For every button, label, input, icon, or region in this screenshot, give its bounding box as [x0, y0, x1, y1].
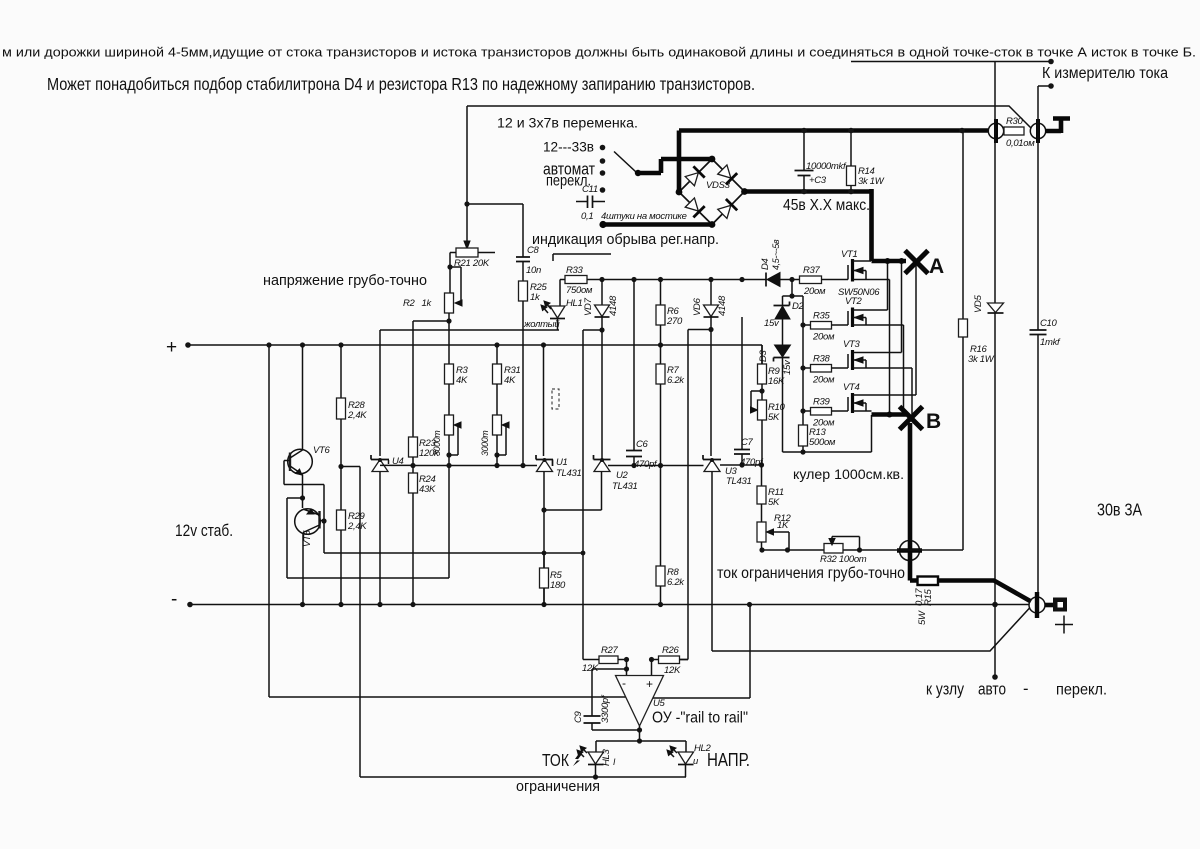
capacitor C9: [573, 669, 640, 730]
svg-text:VT4: VT4: [843, 382, 860, 393]
resistor R38: [803, 354, 848, 386]
svg-text:4148: 4148: [608, 295, 619, 316]
svg-text:180: 180: [550, 580, 566, 591]
svg-text:43K: 43K: [419, 484, 436, 495]
switch arm: [614, 152, 636, 173]
svg-text:U2: U2: [616, 470, 629, 481]
current set wire y551: [762, 549, 963, 551]
regulator U2 TL431: [544, 330, 637, 510]
svg-text:авто: авто: [978, 681, 1006, 699]
resistor R24: [409, 473, 436, 605]
svg-text:ТОК: ТОК: [542, 751, 569, 770]
node A bus: [872, 259, 907, 264]
resistor R5: [540, 551, 566, 591]
svg-text:R27: R27: [601, 645, 619, 656]
R5 bottom wire: [543, 553, 545, 605]
svg-text:C11: C11: [582, 184, 598, 195]
resistor R3: [445, 364, 469, 415]
thick bridge right output to A: [745, 189, 872, 261]
bridge diode bottom-right: [717, 199, 738, 220]
svg-text:TL431: TL431: [612, 481, 637, 492]
LED bottom bus: [360, 776, 686, 778]
indication bracket: [553, 254, 611, 261]
svg-text:R33: R33: [566, 265, 584, 276]
bridge rectifier VDS3 diamond: [679, 159, 745, 225]
svg-text:500ом: 500ом: [809, 437, 836, 448]
drain riser VT2: [887, 261, 889, 310]
svg-text:жолтый: жолтый: [523, 319, 560, 330]
diode VD5: [973, 294, 1004, 313]
svg-text:VT3: VT3: [843, 339, 861, 350]
resistor R16 line: [962, 131, 964, 550]
svg-text:напряжение грубо-точно: напряжение грубо-точно: [263, 273, 427, 289]
leader wire to ammeter label: [1038, 85, 1051, 87]
svg-text:D4: D4: [760, 258, 771, 270]
bridge diode top-right: [717, 164, 738, 185]
regulator U1 TL431: [536, 345, 581, 605]
svg-text:2,4K: 2,4K: [347, 410, 367, 421]
svg-text:VD7: VD7: [583, 297, 594, 316]
resistor R13: [799, 425, 836, 448]
resistor R28: [337, 345, 368, 467]
source drop VT2: [903, 325, 905, 415]
resistor R31: [493, 345, 521, 415]
bridge diode bottom-left: [684, 197, 705, 218]
gate node jog: [783, 280, 804, 297]
svg-text:C8: C8: [527, 245, 540, 256]
resistor chain R9: [758, 345, 785, 387]
drain riser VT3: [901, 261, 903, 353]
potentiometer R12: [757, 504, 792, 550]
potentiometer R32: [820, 537, 867, 566]
resistor R8: [656, 466, 685, 605]
svg-text:ограничения: ограничения: [516, 778, 600, 795]
base link wire y553: [324, 552, 583, 554]
svg-text:1K: 1K: [777, 520, 789, 531]
svg-text:-: -: [622, 676, 626, 690]
inverting input node: [624, 657, 629, 662]
svg-text:U4: U4: [392, 456, 404, 467]
LED branch top bus: [596, 741, 686, 752]
resistor R29: [337, 467, 368, 605]
svg-text:U1: U1: [556, 457, 568, 468]
svg-text:VD5: VD5: [973, 294, 984, 313]
svg-text:16K: 16K: [768, 376, 785, 387]
flash glyph: [573, 752, 582, 766]
svg-text:В: В: [926, 410, 941, 433]
LED HL2: [667, 743, 712, 777]
svg-text:R35: R35: [813, 311, 831, 322]
svg-text:20ом: 20ом: [803, 286, 826, 297]
bridge diode top-left: [684, 166, 705, 187]
capacitor C6: [626, 280, 658, 471]
svg-text:HL3: HL3: [601, 748, 612, 766]
svg-text:45в Х.Х макс.: 45в Х.Х макс.: [783, 197, 870, 214]
svg-text:750ом: 750ом: [566, 285, 593, 296]
svg-text:0,01ом: 0,01ом: [1006, 138, 1035, 149]
svg-text:0,17: 0,17: [914, 588, 925, 606]
svg-text:C7: C7: [741, 437, 754, 448]
svg-text:D3: D3: [758, 349, 769, 362]
resistor R16: [959, 319, 995, 365]
svg-text:C6: C6: [636, 439, 649, 450]
svg-text:Может понадобиться подбор стаб: Может понадобиться подбор стабилитрона D…: [47, 74, 755, 94]
VT5 emitter wire: [287, 498, 449, 578]
bus segment left: [341, 466, 360, 468]
svg-text:0,1: 0,1: [581, 211, 593, 222]
LED HL1: [523, 298, 583, 330]
svg-text:4штуки на мостике: 4штуки на мостике: [601, 211, 687, 222]
R21 wiper arrow wire: [466, 204, 468, 242]
svg-text:270: 270: [666, 316, 683, 327]
svg-text:+: +: [166, 337, 177, 358]
svg-text:VT6: VT6: [313, 445, 331, 456]
thick DC rail top: [679, 128, 989, 133]
switch contacts: [600, 145, 606, 193]
VD6 link to op-amp + input: [680, 330, 711, 660]
resistor R23: [409, 437, 440, 473]
node leader to "точке А": [851, 61, 1051, 63]
svg-text:470pf: 470pf: [634, 459, 658, 470]
mosfet VT2: [845, 296, 904, 327]
sense line x995 lower: [994, 313, 996, 677]
svg-text:3k 1W: 3k 1W: [858, 176, 885, 187]
resistor R35: [803, 311, 848, 343]
svg-text:15v: 15v: [782, 359, 793, 375]
svg-text:м или дорожки шириной 4-5мм,ид: м или дорожки шириной 4-5мм,идущие от ст…: [2, 46, 1196, 60]
sense wire top: [467, 106, 1031, 128]
svg-text:R32 100om: R32 100om: [820, 554, 867, 565]
svg-text:4K: 4K: [504, 375, 516, 386]
svg-text:2,4K: 2,4K: [347, 521, 367, 532]
svg-text:20ом: 20ом: [812, 375, 835, 386]
opamp supply right wire: [653, 605, 751, 699]
svg-text:12---33в: 12---33в: [543, 140, 594, 156]
U3 anode wire to avto node: [712, 472, 1030, 652]
sense line x995 upper: [994, 62, 996, 303]
noninverting input node: [649, 657, 654, 662]
drain riser VT4: [915, 263, 917, 396]
resistor R26: [652, 645, 689, 676]
thick wire R30 to T terminal: [1045, 119, 1070, 134]
resistor R39: [803, 397, 848, 429]
wire C8 top feed: [467, 106, 523, 257]
thick wire to R15: [910, 561, 918, 581]
svg-text:R26: R26: [662, 645, 680, 656]
wire gate feed y279: [587, 279, 800, 281]
resistor R11: [757, 465, 784, 508]
diode D4: [760, 239, 781, 287]
potentiometer R3b 3000m: [432, 415, 461, 578]
node B X mark: [900, 407, 923, 430]
thick bridge left feed: [677, 131, 682, 193]
resistor R37: [800, 265, 849, 297]
wire U3 ref bus: [720, 464, 762, 466]
svg-text:5K: 5K: [768, 412, 780, 423]
measure line x1038 with C10: [1037, 86, 1039, 597]
svg-text:1k: 1k: [530, 292, 541, 303]
svg-text:C10: C10: [1040, 318, 1058, 329]
capacitor C7: [734, 317, 764, 468]
svg-text:-: -: [1023, 680, 1029, 698]
thick B drop: [908, 423, 913, 541]
svg-text:3000m: 3000m: [480, 431, 490, 456]
capacitor C10: [1030, 318, 1062, 348]
potentiometer R21: [447, 248, 495, 306]
svg-text:5K: 5K: [768, 497, 780, 508]
svg-text:А: А: [929, 255, 944, 278]
svg-text:НАПР.: НАПР.: [707, 749, 750, 770]
svg-text:R2 1k: R2 1k: [403, 298, 433, 309]
plus output terminal: [1029, 592, 1073, 634]
regulator U4 TL431: [371, 330, 413, 605]
svg-text:+C3: +C3: [809, 175, 827, 186]
thick bottom AC wire: [602, 222, 712, 227]
svg-text:12 и 3х7в переменка.: 12 и 3х7в переменка.: [497, 116, 638, 132]
opamp output: [639, 726, 641, 741]
potentiometer R31b 3000m: [480, 415, 509, 466]
svg-text:4K: 4K: [456, 375, 468, 386]
node A X mark: [905, 251, 928, 274]
zener D2: [764, 296, 805, 345]
indicator return wire y330: [380, 329, 559, 331]
source drop VT3: [911, 368, 913, 414]
capacitor C3: [795, 128, 847, 195]
svg-text:30в 3А: 30в 3А: [1097, 500, 1142, 520]
regulator U3 TL431: [703, 317, 751, 487]
U1 anode junction: [541, 507, 546, 512]
svg-text:20ом: 20ом: [812, 332, 835, 343]
svg-text:10n: 10n: [526, 265, 541, 276]
svg-text:ОУ -"rail to rail": ОУ -"rail to rail": [652, 710, 748, 727]
svg-text:15v: 15v: [764, 318, 780, 329]
svg-text:1mkf: 1mkf: [1040, 337, 1061, 348]
potentiometer R2: [403, 293, 454, 437]
capacitor C11: [576, 184, 605, 222]
resistor R14: [847, 128, 885, 195]
svg-text:индикация обрыва рег.напр.: индикация обрыва рег.напр.: [532, 231, 719, 248]
svg-text:4148: 4148: [717, 295, 728, 316]
svg-text:HL1: HL1: [566, 298, 583, 309]
mosfet VT3: [843, 339, 912, 370]
svg-text:R39: R39: [813, 397, 831, 408]
diode VD6: [692, 280, 728, 318]
svg-text:к узлу: к узлу: [926, 680, 964, 699]
resistor R33: [560, 265, 593, 306]
svg-text:кулер 1000см.кв.: кулер 1000см.кв.: [793, 467, 904, 483]
svg-text:470pf: 470pf: [740, 457, 764, 468]
svg-text:R30: R30: [1006, 116, 1024, 127]
svg-text:12K: 12K: [664, 665, 681, 676]
source drop VT1: [889, 280, 891, 415]
op-amp U5: [616, 676, 666, 727]
gate divider bus: [802, 296, 804, 452]
transistor VT6: [284, 345, 331, 553]
current sense crossing circle: [897, 541, 922, 561]
svg-text:R37: R37: [803, 265, 821, 276]
svg-text:VD6: VD6: [692, 297, 703, 316]
source return wire y452: [783, 415, 872, 452]
svg-text:5W: 5W: [917, 610, 928, 625]
LED HL3: [577, 746, 616, 777]
svg-text:перекл.: перекл.: [1056, 682, 1107, 699]
svg-text:3k 1W: 3k 1W: [968, 354, 995, 365]
capacitor C8: [516, 245, 541, 281]
svg-text:U5: U5: [653, 698, 666, 709]
thick output wire: [938, 581, 1031, 602]
svg-text:3300pf: 3300pf: [600, 694, 611, 723]
resistor R6: [656, 280, 683, 346]
svg-text:6.2k: 6.2k: [667, 375, 685, 386]
svg-text:VT1: VT1: [841, 249, 858, 260]
long loop wire x360: [359, 467, 361, 778]
svg-text:VT2: VT2: [845, 296, 863, 307]
svg-text:R38: R38: [813, 354, 831, 365]
svg-text:6.2k: 6.2k: [667, 577, 685, 588]
node B bus: [872, 412, 907, 417]
feedback node: [599, 327, 604, 332]
svg-text:4,5-~-5в: 4,5-~-5в: [771, 239, 781, 270]
bus segment mid: [413, 465, 538, 467]
shunt R30 with terminals: [988, 116, 1045, 149]
potentiometer R10: [751, 384, 786, 465]
resistor R25: [519, 281, 548, 466]
svg-text:TL431: TL431: [556, 468, 581, 479]
svg-text:120k: 120k: [419, 448, 440, 459]
resistor R15: [914, 577, 938, 626]
svg-text:+: +: [646, 677, 653, 691]
resistor R27: [582, 645, 627, 674]
transistor VT5: [295, 495, 327, 604]
zener D3: [758, 345, 793, 452]
svg-text:VDS3: VDS3: [706, 180, 731, 191]
thick wire switch to bridge: [637, 159, 712, 173]
mosfet VT4: [843, 382, 916, 413]
resistor R7: [656, 345, 685, 466]
wire y466 bus mid: [608, 465, 704, 467]
svg-text:C9: C9: [573, 710, 584, 723]
mech link dashed: [552, 389, 559, 409]
svg-text:TL431: TL431: [726, 476, 751, 487]
svg-text:12v стаб.: 12v стаб.: [175, 521, 233, 540]
diode VD7: [583, 280, 619, 331]
mosfet VT1: [838, 249, 890, 298]
svg-text:ток ограничения грубо-точно: ток ограничения грубо-точно: [717, 565, 905, 582]
svg-text:-: -: [171, 589, 177, 610]
opamp supply left wire: [269, 345, 626, 697]
svg-text:К измерителю тока: К измерителю тока: [1042, 65, 1168, 82]
